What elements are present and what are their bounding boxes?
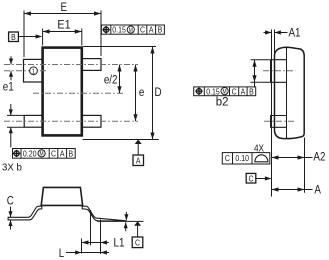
svg-text:A: A: [149, 25, 154, 35]
svg-text:C: C: [7, 195, 14, 208]
svg-text:3X b: 3X b: [2, 162, 22, 173]
svg-text:C: C: [248, 174, 253, 184]
lead top-right: [82, 59, 101, 71]
svg-text:0.10: 0.10: [235, 154, 249, 164]
centerline middle: [33, 92, 124, 94]
feature control frame top: 0.15 M C A B: [101, 25, 164, 34]
svg-text:B: B: [249, 87, 254, 97]
svg-text:0.20: 0.20: [23, 149, 37, 159]
right body extension bottom: [304, 138, 306, 193]
upper lead band right view: [271, 60, 287, 83]
dimension E: [23, 11, 25, 58]
feature control frame right: 0.15 M C A B: [194, 87, 256, 96]
svg-text:B: B: [158, 25, 163, 35]
centerline bottom lead row: [4, 120, 138, 122]
svg-text:A2: A2: [313, 151, 325, 164]
svg-text:L: L: [59, 247, 64, 260]
svg-text:e: e: [139, 86, 144, 99]
svg-text:1: 1: [32, 68, 36, 76]
svg-text:A: A: [136, 156, 141, 166]
parting line right view: [286, 47, 288, 138]
body profile: [41, 187, 82, 205]
body top view: [43, 48, 82, 136]
svg-text:D: D: [155, 86, 162, 99]
lead tip squeeze arrows: [125, 212, 127, 220]
svg-text:A: A: [314, 184, 321, 197]
dimension A2: [272, 157, 305, 159]
datum B: [9, 32, 19, 42]
body right view outline: [275, 47, 305, 138]
dimension A1: [264, 32, 272, 34]
position symbol: [102, 26, 109, 33]
svg-text:E1: E1: [57, 19, 70, 32]
centerline top lead row: [4, 64, 138, 66]
datum C right view: [246, 173, 256, 183]
svg-text:C: C: [135, 238, 140, 248]
svg-text:C: C: [232, 87, 237, 97]
seating plane line profile: [97, 220, 144, 222]
svg-text:0.15: 0.15: [112, 25, 126, 35]
dome symbol: [255, 155, 268, 162]
svg-text:M: M: [40, 151, 44, 158]
svg-text:C: C: [51, 149, 56, 159]
dimension E1: [42, 29, 44, 46]
svg-text:E: E: [61, 1, 68, 14]
dimension e: [135, 65, 137, 122]
right lead profile: [82, 206, 126, 221]
dimension L1: [82, 242, 109, 244]
svg-text:e/2: e/2: [104, 74, 118, 87]
svg-text:A1: A1: [289, 26, 301, 39]
lead pin1 wide top-left: [24, 59, 43, 82]
centerline bottom row right view: [264, 120, 294, 122]
centerline pin1 row right view: [263, 70, 296, 72]
left lead profile: [8, 206, 42, 220]
datum A: [135, 140, 142, 145]
svg-text:C: C: [140, 25, 145, 35]
lead bottom-left: [24, 115, 42, 127]
svg-text:4X: 4X: [254, 143, 264, 154]
svg-text:e1: e1: [3, 81, 14, 94]
feature control frame bottom: 0.20 M C A B: [13, 149, 76, 159]
svg-text:L1: L1: [114, 237, 125, 250]
svg-text:B: B: [11, 32, 16, 42]
datum C profile: [134, 221, 141, 226]
svg-text:b2: b2: [216, 95, 229, 108]
centerline pin1: [4, 70, 47, 72]
svg-text:A: A: [241, 87, 246, 97]
lower lead band right view: [271, 116, 287, 128]
pin 1 marker circle: [30, 67, 38, 75]
L1/L extension lines: [81, 239, 83, 254]
dimension e/2: [119, 65, 121, 94]
svg-text:A: A: [60, 149, 65, 159]
svg-text:B: B: [68, 149, 73, 159]
dimension D: [83, 46, 156, 48]
lead bottom-right: [82, 115, 101, 127]
seating plane flatness frame: C 0.10 dome: [222, 153, 269, 164]
dimension b: [7, 114, 24, 116]
dimension A: [272, 189, 305, 191]
svg-text:C: C: [225, 154, 230, 164]
dimension e1: [10, 56, 12, 64]
svg-text:M: M: [129, 28, 133, 35]
seating plane vertical line: [271, 30, 273, 197]
dimension b2: [251, 59, 271, 61]
body-left extension line: [274, 30, 276, 60]
